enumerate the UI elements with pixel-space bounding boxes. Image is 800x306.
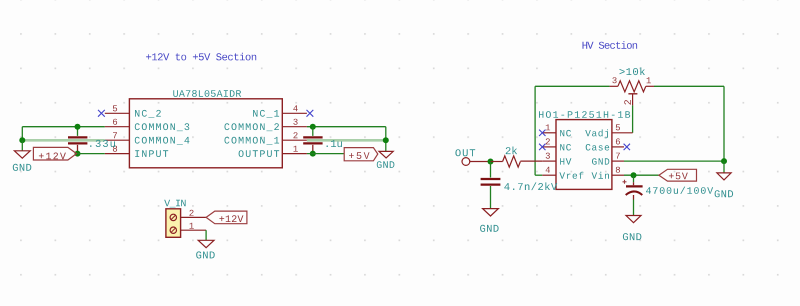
- junction bottom of C1: [75, 151, 81, 157]
- connector J1 label V_IN: [164, 200, 185, 208]
- capacitor C3 plates: [481, 178, 501, 180]
- wire wiper down to pin 5: [632, 105, 634, 132]
- ground symbol left: [21, 140, 23, 151]
- U2 pin name Vin: [592, 172, 610, 179]
- ground symbol under J1: [198, 240, 214, 247]
- RV1 pin number 3: [612, 77, 616, 83]
- connector J1 body: [166, 209, 181, 238]
- J1 screw terminal circle pin 2: [170, 214, 176, 220]
- U1 pin 6 stub: [105, 126, 130, 128]
- RV1 pin number 1: [647, 77, 651, 83]
- U1 pin 5 stub: [105, 112, 130, 114]
- no-connect X on U2 pin 2: [539, 144, 545, 150]
- U1 pin name COMMON_4: [135, 137, 190, 145]
- junction at OUT node: [488, 159, 494, 165]
- wire pin 8 to +5V: [624, 174, 659, 176]
- C4 value 4700u/100V: [646, 187, 713, 194]
- power flag +12V (left section): [33, 147, 76, 160]
- junction right pale node: [383, 137, 389, 143]
- U2 pin 6 stub: [612, 146, 624, 148]
- ground symbol under C3: [483, 209, 499, 216]
- OUT label: [455, 149, 475, 156]
- no-connect X on U2 pin 1: [539, 130, 545, 136]
- capacitor C2 plates: [303, 136, 322, 138]
- U2 pin 1 stub: [542, 132, 556, 134]
- RV1 pin number 2 (rotated): [624, 100, 631, 105]
- potentiometer RV1 zigzag: [618, 81, 646, 92]
- wire left vertical of HV loop (to Vref): [534, 86, 536, 175]
- capacitor C2 .1u vertical: [312, 127, 314, 136]
- junction at left GND node: [19, 137, 25, 143]
- U1 pin name NC_2: [135, 110, 161, 118]
- U1 pin 1 stub: [282, 153, 307, 155]
- U1 pin 3 stub: [282, 126, 307, 128]
- U2 pin name NC (1): [560, 130, 571, 137]
- pin number 7: [113, 132, 117, 138]
- wire top-right of HV loop: [654, 85, 724, 87]
- wire pale horizontal (GND net to pin 7): [22, 139, 105, 142]
- pin number 1: [294, 146, 298, 152]
- wire pin1 to +5V flag: [307, 153, 344, 155]
- capacitor C3 4.7n/2kV vertical wires: [490, 162, 492, 178]
- U2 pin name Vref: [559, 172, 583, 179]
- wire Vref horizontal: [535, 174, 542, 176]
- junction top of C1: [75, 124, 81, 130]
- junction at pin3/C2: [310, 124, 316, 130]
- C2 value .1u: [327, 140, 342, 147]
- ground symbol right of U1: [379, 151, 393, 158]
- ground symbol under C4: [626, 216, 641, 223]
- C4 top plate: [626, 185, 643, 187]
- capacitor C1 plates: [68, 136, 87, 138]
- wire bottom-left (pin 8 to +12V): [78, 153, 105, 155]
- U2 pin name Case: [586, 144, 610, 151]
- J1 screw terminal circle pin 1: [170, 227, 176, 233]
- junction bottom of C2: [310, 151, 316, 157]
- C3 value 4.7n/2kV: [504, 182, 557, 190]
- R1 right stub / wire to pin 3: [520, 160, 542, 162]
- wire right vertical down: [385, 127, 387, 151]
- U1 pin name COMMON_1: [224, 137, 279, 145]
- no-connect X on pin 5: [98, 110, 105, 117]
- U2 pin 3 stub: [542, 160, 556, 162]
- power flag +5V (HV section): [659, 169, 697, 181]
- pin number 8: [113, 146, 117, 152]
- J1 pin 2 stub: [181, 216, 207, 218]
- wire pin3 to right vertical: [307, 126, 386, 128]
- wire pin 7 to right vertical: [624, 160, 724, 162]
- wire right vertical of HV loop: [723, 86, 725, 161]
- U2 pin name GND: [592, 158, 609, 165]
- U1 pin name OUTPUT: [239, 150, 280, 157]
- RV1 value >10k: [620, 67, 645, 75]
- pin number 2: [189, 210, 193, 216]
- U2 pin 7 stub: [612, 160, 624, 162]
- ground symbol right: [723, 161, 725, 173]
- pin number 2: [293, 132, 297, 138]
- U2 pin name Vadj: [585, 129, 608, 138]
- OUT pin stub: [470, 161, 491, 163]
- IC U2 body HO1-P1251H-1B: [556, 120, 612, 190]
- J1 pin 1 stub: [181, 229, 207, 231]
- U2 pin 4 stub: [542, 174, 556, 176]
- wire top-left of HV loop: [535, 85, 610, 87]
- power flag +5V (left section): [344, 148, 378, 161]
- U1 pin 4 stub: [282, 112, 307, 114]
- note text "HV Section": [583, 41, 638, 49]
- U2 pin 2 stub: [542, 146, 556, 148]
- junction right GND node: [721, 158, 727, 164]
- potentiometer RV1 left stub: [610, 85, 618, 87]
- U1 pin name NC_1: [253, 110, 279, 118]
- U1 pin 2 stub: [282, 139, 307, 141]
- wire pale (pin 2 to right vertical): [307, 139, 386, 142]
- U2 pin 8 stub: [612, 174, 624, 176]
- RV1 right stub: [646, 85, 654, 87]
- C4 plus mark: [623, 180, 627, 184]
- junction at pin 8 / C4: [631, 172, 637, 178]
- U1 pin name COMMON_2: [224, 123, 278, 131]
- U1 value UA78L05AIDR: [173, 90, 241, 97]
- pin number 6: [113, 119, 117, 125]
- wire pin1 down to ground: [205, 230, 207, 240]
- U2 value HO1-P1251H-1B: [539, 111, 630, 118]
- U1 pin 8 stub: [105, 153, 130, 155]
- U2 pin name NC (2): [560, 144, 571, 151]
- no-connect X on pin 4: [307, 110, 314, 117]
- R1 value 2k: [506, 147, 517, 155]
- pin number 3: [293, 119, 297, 125]
- op-amp U1 body (regulator UA78L05AIDR): [129, 99, 282, 168]
- C4 bottom curved plate: [626, 191, 643, 195]
- RV1 wiper tee: [628, 93, 637, 95]
- OUT pin circle J2: [462, 158, 470, 166]
- pin number 1: [190, 223, 194, 229]
- U1 pin name INPUT: [135, 150, 168, 157]
- resistor R1 2k left stub: [491, 161, 503, 163]
- wire left vertical corner: [21, 127, 23, 141]
- U1 pin name COMMON_3: [135, 123, 189, 131]
- capacitor C1 .33u vertical wire: [77, 127, 79, 136]
- capacitor C4 4700u/100V vertical wires: [633, 175, 635, 182]
- note text "+12V to +5V Section": [146, 53, 256, 61]
- U1 pin 7 stub: [105, 139, 130, 141]
- power flag +12V (at connector): [206, 211, 247, 224]
- U2 pin name HV: [560, 158, 571, 164]
- C1 value .33u: [90, 140, 115, 147]
- pin number 4: [293, 105, 297, 111]
- resistor R1 zigzag: [503, 156, 521, 167]
- no-connect X on U2 pin 6: [624, 144, 630, 150]
- wire top-left horizontal (GND net to pin 6): [22, 126, 105, 128]
- pin number 5: [113, 105, 117, 111]
- U2 pin 5 stub: [612, 132, 633, 134]
